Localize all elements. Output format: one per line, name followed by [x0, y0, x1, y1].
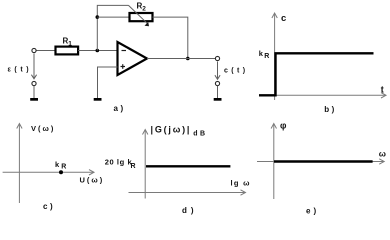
svg-text:e): e) — [306, 207, 319, 216]
wire R1 to op-amp inverting input — [78, 50, 117, 52]
axis U(w) (graph c horizontal) — [3, 170, 94, 175]
label 20 lg kR — [105, 158, 136, 170]
axis |G(jw)|dB (graph d vertical) — [143, 130, 148, 199]
svg-text:a): a) — [114, 104, 126, 113]
axis lg w (graph d horizontal) — [129, 190, 246, 195]
wire output to ground — [217, 86, 219, 99]
node junction A (inverting input) — [96, 49, 100, 53]
wire input to R1 — [36, 50, 56, 52]
wire R2 to output node — [153, 17, 188, 58]
svg-text:20 lg k: 20 lg k — [105, 158, 133, 167]
op-amp U1 — [118, 42, 148, 75]
wire input arrow down — [31, 54, 36, 79]
node kR point (graph c) — [59, 170, 63, 174]
node junction C (output) — [186, 57, 190, 61]
wire non-inverting input to ground — [98, 67, 118, 98]
label kR (graph b) — [259, 49, 269, 60]
svg-text:b): b) — [324, 105, 337, 114]
node input terminal — [32, 48, 36, 52]
svg-text:2: 2 — [142, 6, 146, 13]
node output terminal — [215, 56, 219, 60]
svg-text:R: R — [131, 163, 136, 170]
svg-text:1: 1 — [68, 40, 72, 47]
ground (input) — [30, 98, 38, 101]
ground (output) — [214, 98, 222, 101]
resistor R2 (variable) — [129, 2, 153, 27]
svg-text:φ: φ — [280, 121, 287, 131]
curve phase = 0 (graph e) — [274, 160, 373, 162]
node input lower terminal — [32, 81, 36, 85]
axis t (graph b horizontal) — [259, 93, 386, 98]
svg-text:ε(t): ε(t) — [8, 67, 33, 74]
axis w (graph e horizontal) — [257, 159, 384, 164]
axis phi (graph e vertical) — [271, 124, 276, 200]
svg-text:d): d) — [182, 206, 198, 215]
label |G(jw)|dB — [151, 125, 208, 138]
label kR (graph c) — [55, 160, 66, 171]
curve magnitude 20 lg kR (graph d) — [146, 165, 230, 167]
resistor R1 — [56, 37, 79, 55]
svg-text:R: R — [61, 164, 66, 171]
wire output arrow down — [215, 62, 220, 80]
svg-text:c: c — [281, 13, 286, 24]
axis c (graph b vertical) — [272, 13, 277, 100]
curve step response c(t)=kR — [259, 53, 374, 95]
svg-text:lg ω: lg ω — [231, 179, 251, 188]
svg-text:dB: dB — [193, 130, 207, 137]
svg-text:t: t — [381, 85, 384, 95]
svg-text:c(t): c(t) — [224, 68, 249, 75]
node output lower terminal — [215, 81, 219, 85]
svg-text:R: R — [264, 53, 269, 60]
svg-text:U(ω): U(ω) — [80, 176, 105, 185]
node junction B (R2 left tap) — [96, 15, 100, 19]
svg-text:|G(jω)|: |G(jω)| — [151, 125, 192, 135]
svg-text:V(ω): V(ω) — [31, 124, 55, 133]
ground (op-amp) — [94, 98, 102, 101]
wire input to ground — [33, 86, 35, 99]
wire op-amp output — [147, 58, 215, 60]
svg-text:ω: ω — [379, 149, 386, 159]
wire feedback vertical — [97, 5, 128, 50]
wire junction B to R2 — [97, 16, 129, 18]
axis V(w) (graph c vertical) — [17, 124, 22, 204]
svg-text:c): c) — [43, 202, 55, 211]
